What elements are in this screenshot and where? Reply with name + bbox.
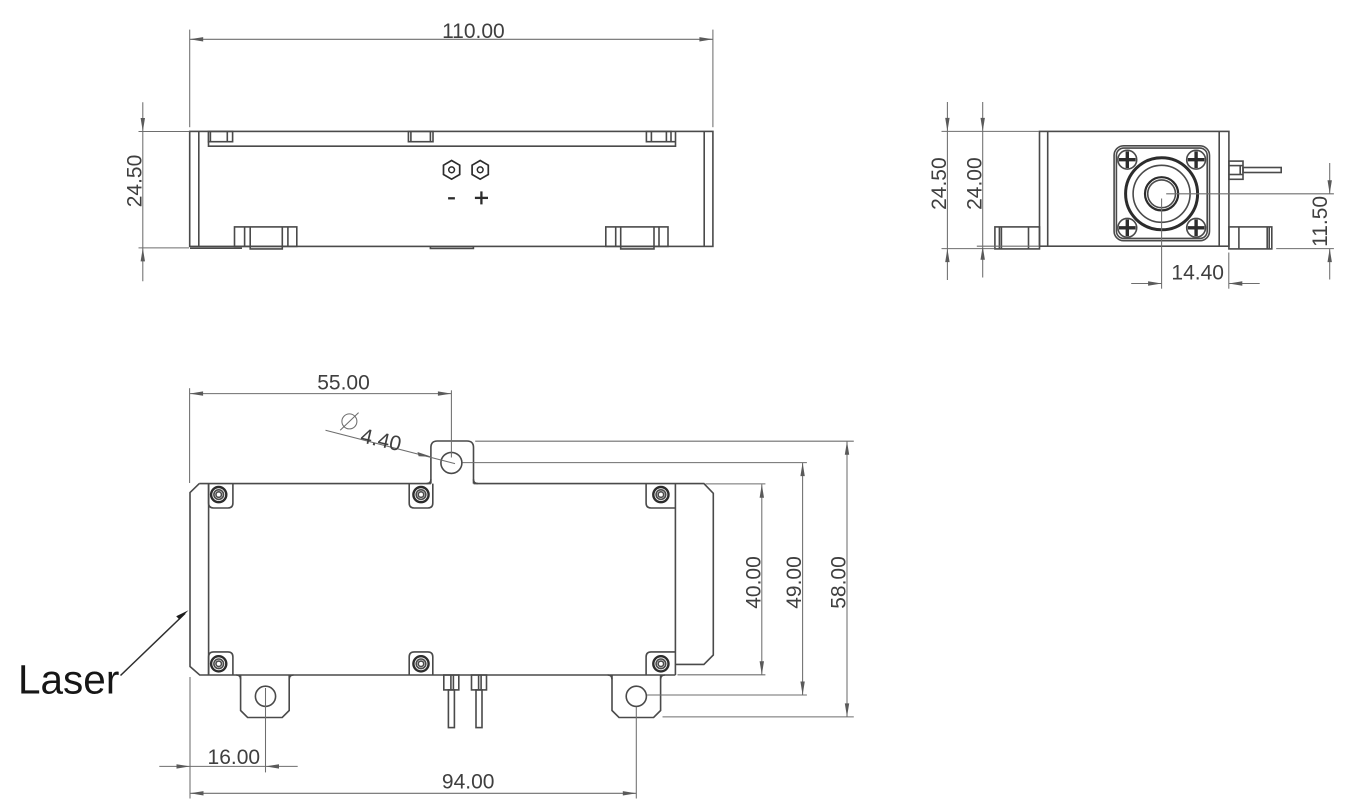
plan pin 1 — [444, 675, 459, 728]
end view right foot — [1229, 227, 1272, 249]
svg-text:Laser: Laser — [18, 657, 119, 703]
connector pin — [1243, 168, 1281, 173]
svg-text:24.50: 24.50 — [928, 157, 951, 210]
dimension 11.50 — [1166, 163, 1334, 280]
plan screw pocket bottom-middle — [409, 652, 433, 675]
connector block — [1229, 161, 1243, 179]
svg-text:24.50: 24.50 — [123, 155, 146, 208]
dimension 14.40 — [1131, 199, 1260, 289]
svg-text:55.00: 55.00 — [317, 372, 370, 395]
plan screw top-left — [211, 487, 226, 502]
dimension 24.50 front — [123, 102, 189, 281]
svg-text:58.00: 58.00 — [827, 556, 850, 609]
dimension diameter 4.40 leader — [326, 413, 456, 464]
terminal hex nut minus — [444, 161, 460, 180]
svg-text:16.00: 16.00 — [208, 746, 261, 769]
dimension 49.00 — [463, 463, 807, 695]
plan screw pocket top-middle — [409, 484, 433, 508]
dimension 58.00 — [475, 441, 854, 717]
plan bottom-left ear — [236, 675, 293, 718]
plan lid inner edge — [208, 484, 210, 675]
dimension 94.00 — [190, 707, 636, 799]
front view lid lip — [209, 132, 676, 147]
Laser label — [18, 610, 189, 702]
plan screw bottom-left — [211, 656, 226, 671]
front view outer box — [190, 131, 713, 246]
dimension 55.00 — [190, 372, 452, 483]
svg-text:110.00: 110.00 — [442, 20, 505, 43]
plan screw pocket bottom-left — [209, 652, 233, 675]
plan body outline — [190, 484, 713, 675]
plan screw top-right — [653, 487, 668, 502]
minus sign label — [448, 197, 455, 199]
end view left foot — [995, 227, 1040, 249]
front view right foot — [606, 227, 668, 249]
plan screw top-middle — [413, 487, 428, 502]
svg-text:49.00: 49.00 — [783, 556, 806, 609]
plan bottom-right ear — [608, 675, 665, 718]
svg-text:11.50: 11.50 — [1309, 196, 1332, 247]
svg-text:24.00: 24.00 — [963, 157, 986, 210]
plan screw pocket top-left — [209, 484, 233, 508]
plus sign label — [475, 191, 488, 204]
flange screw top-left — [1118, 150, 1137, 169]
flange screw bottom-left — [1118, 218, 1137, 237]
plan screw bottom-middle — [413, 656, 428, 671]
dimension 110.00 — [190, 20, 713, 127]
svg-text:40.00: 40.00 — [742, 556, 765, 609]
plan screw pocket bottom-right — [646, 652, 675, 675]
plan pin 2 — [472, 675, 487, 728]
dimension 40.00 — [678, 484, 766, 675]
svg-text:14.40: 14.40 — [1171, 261, 1224, 284]
front view tab 1 — [208, 131, 232, 141]
dimension 24.50 end view — [928, 102, 1039, 280]
plan top mounting ear — [427, 441, 478, 484]
flange screw bottom-right — [1187, 218, 1206, 237]
laser flange outer — [1114, 146, 1209, 241]
flange screw top-right — [1187, 150, 1206, 169]
front view bottom center plate — [430, 246, 473, 248]
front view bottom-left under-edge line — [190, 247, 242, 249]
plan screw bottom-right — [653, 656, 668, 671]
terminal hex nut plus — [472, 161, 488, 180]
laser aperture circles — [1126, 158, 1198, 230]
front view tab 3 — [646, 131, 671, 141]
front view left foot — [235, 227, 297, 249]
front view inner wall lines — [199, 131, 704, 246]
dimension 24.00 end view — [963, 102, 1039, 278]
svg-text:94.00: 94.00 — [442, 770, 495, 793]
end view body — [1040, 131, 1229, 246]
front view tab 2 — [408, 131, 433, 141]
dimension 16.00 — [159, 677, 297, 799]
plan screw pocket top-right — [646, 484, 675, 508]
